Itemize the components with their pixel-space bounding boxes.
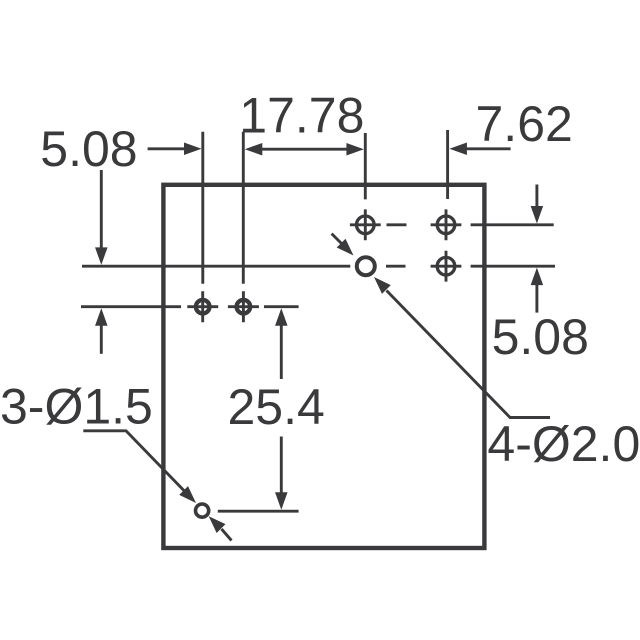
svg-text:3-Ø1.5: 3-Ø1.5 [0, 378, 153, 434]
svg-text:5.08: 5.08 [40, 121, 137, 177]
svg-text:4-Ø2.0: 4-Ø2.0 [487, 416, 640, 472]
svg-text:7.62: 7.62 [476, 96, 573, 152]
svg-text:17.78: 17.78 [239, 87, 364, 143]
svg-text:5.08: 5.08 [492, 309, 589, 365]
svg-text:25.4: 25.4 [228, 379, 325, 435]
